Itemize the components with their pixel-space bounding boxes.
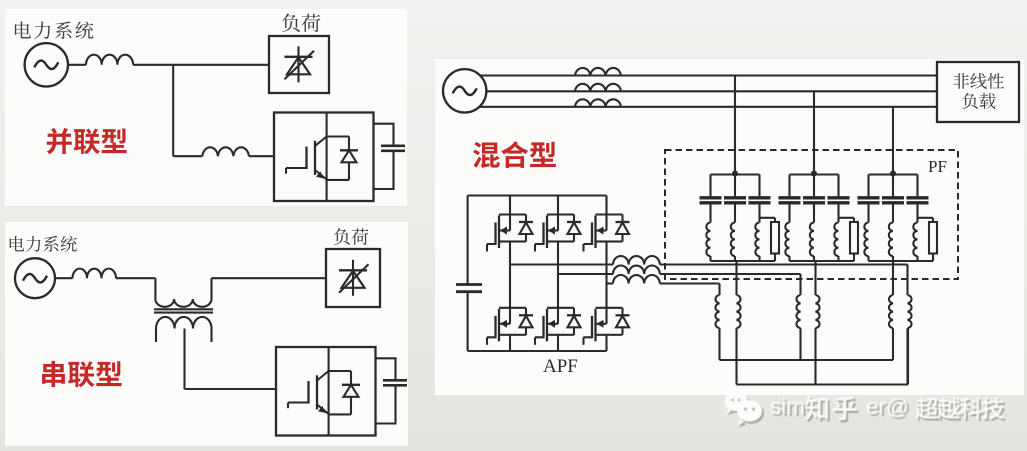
svg-text:sim: sim bbox=[770, 394, 805, 419]
svg-text:er@: er@ bbox=[866, 394, 909, 419]
svg-text:PF: PF bbox=[928, 157, 947, 176]
svg-text:APF: APF bbox=[543, 356, 578, 377]
